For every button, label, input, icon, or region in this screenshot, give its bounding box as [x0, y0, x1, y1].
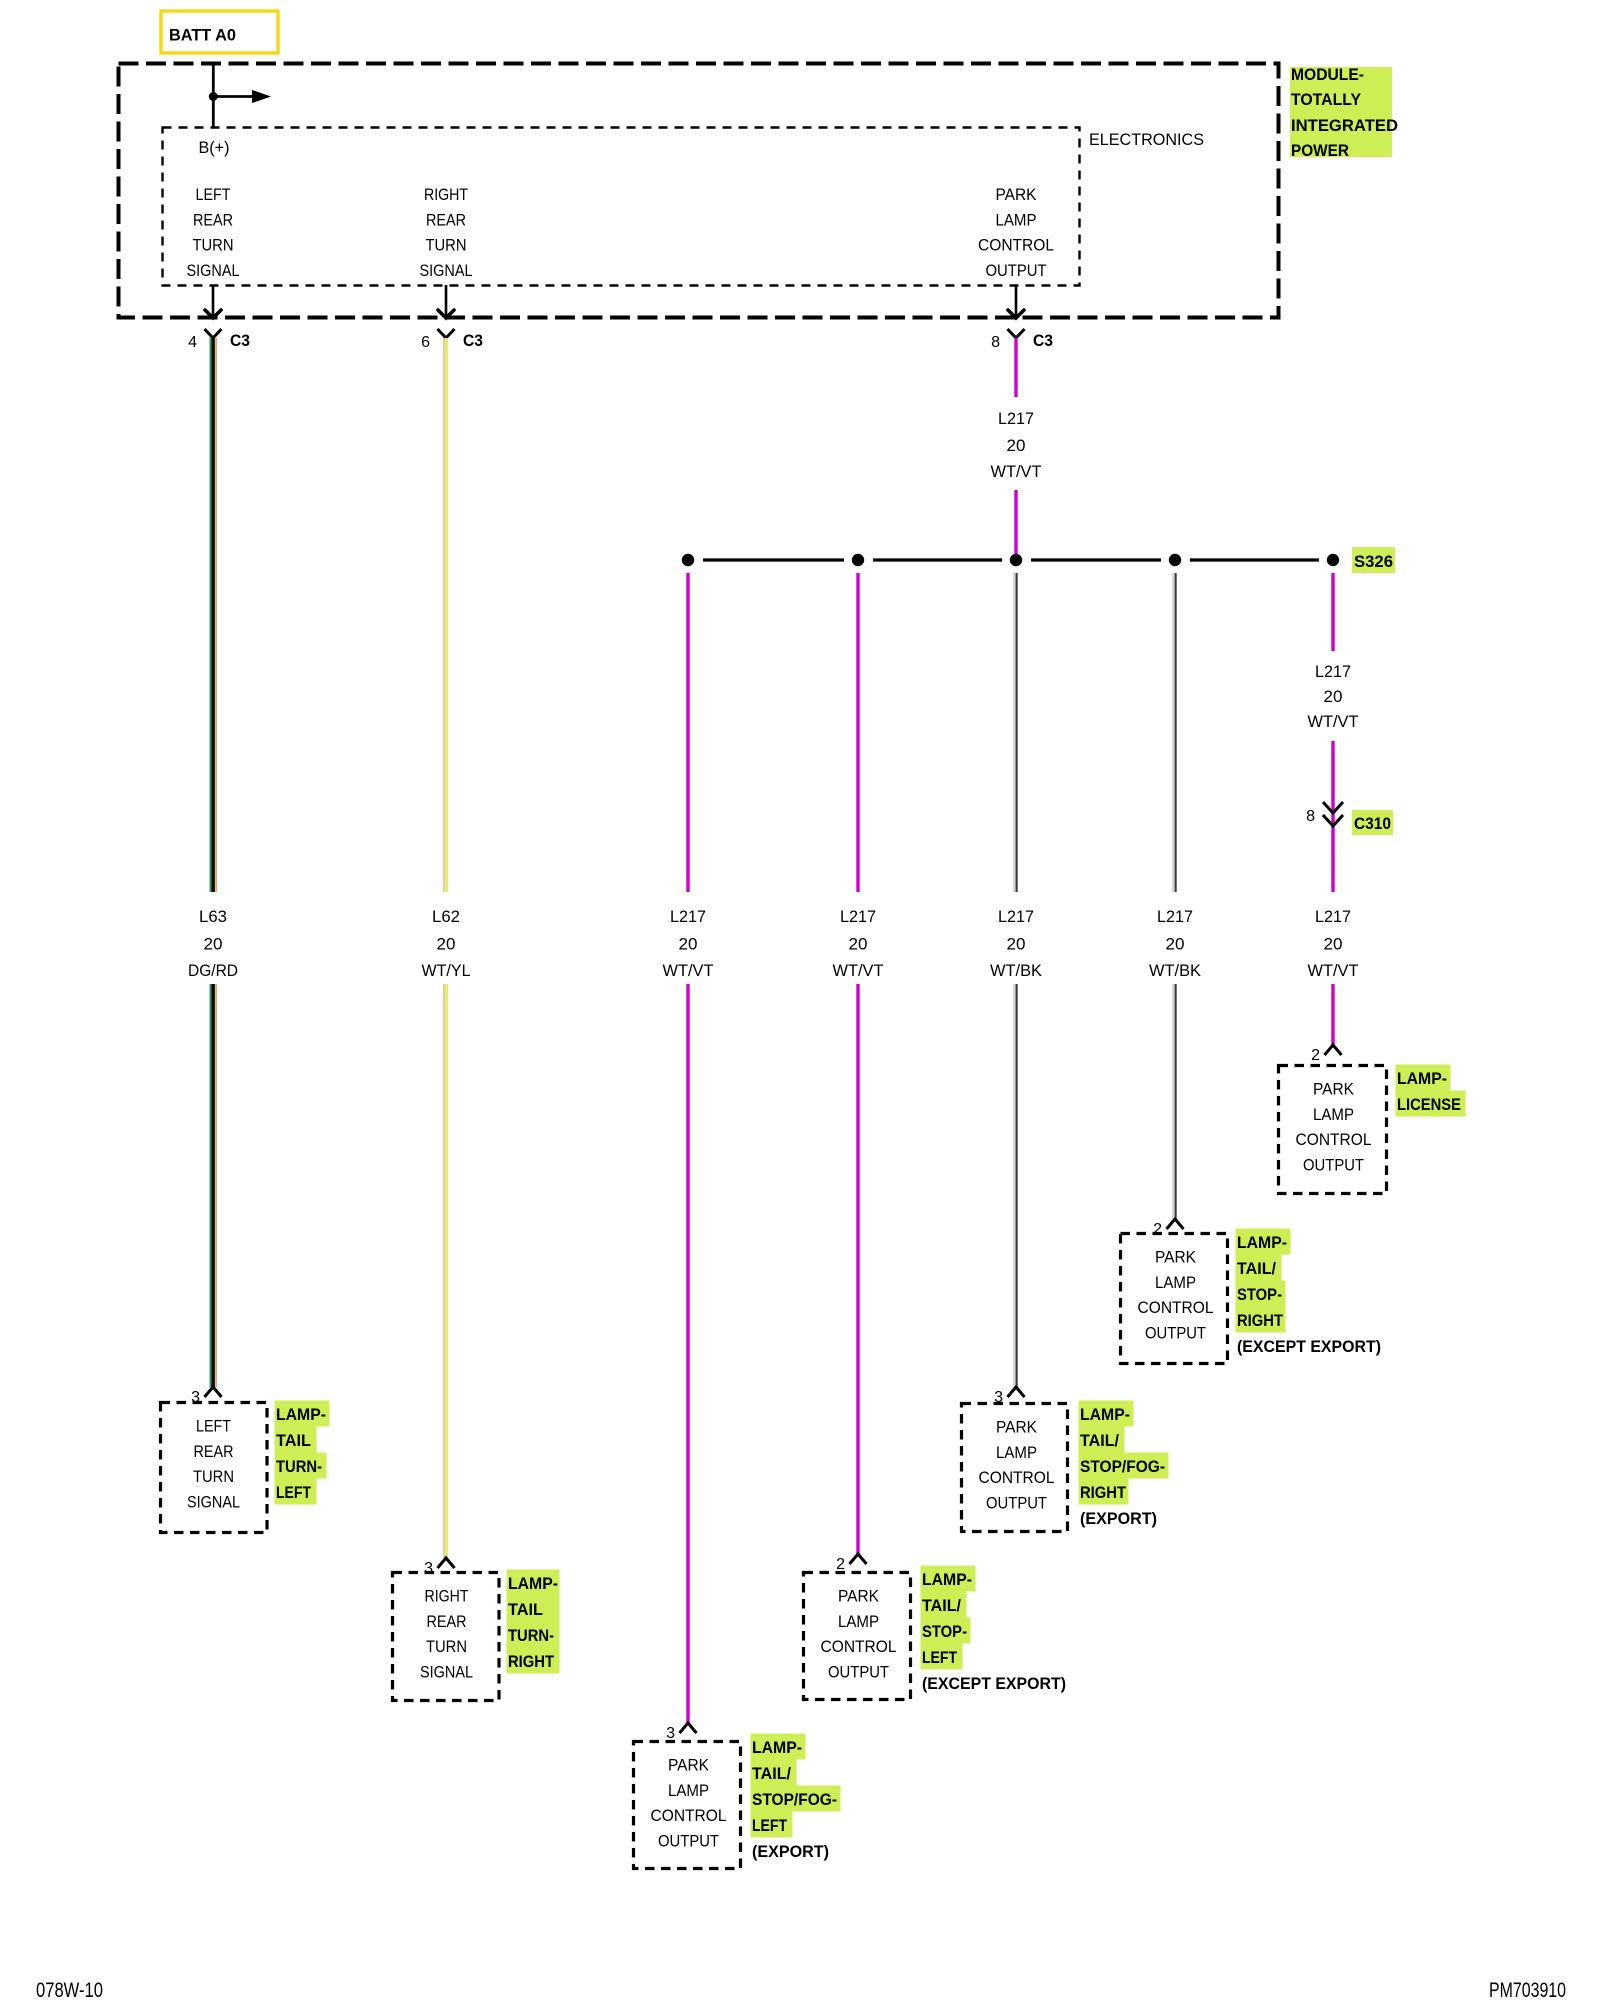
- svg-text:LAMP-: LAMP-: [1397, 1070, 1447, 1088]
- pin 3 chevron: [205, 1387, 222, 1397]
- svg-text:B(+): B(+): [199, 139, 230, 157]
- svg-text:LICENSE: LICENSE: [1397, 1096, 1461, 1114]
- svg-text:CONTROL: CONTROL: [1138, 1299, 1214, 1317]
- svg-text:TURN-: TURN-: [276, 1458, 322, 1476]
- svg-text:L63: L63: [199, 907, 227, 926]
- svg-text:L217: L217: [1157, 907, 1193, 926]
- svg-text:DG/RD: DG/RD: [188, 961, 238, 980]
- component dashed box: [1279, 1066, 1387, 1194]
- svg-text:20: 20: [679, 935, 698, 954]
- highlighted label line: [921, 1618, 971, 1644]
- pin 2 chevron: [1325, 1045, 1342, 1055]
- splice bus S326: [703, 558, 844, 561]
- pin 2 chevron: [1167, 1219, 1184, 1229]
- highlighted label line: [921, 1592, 967, 1618]
- highlighted label line: [751, 1760, 797, 1786]
- svg-text:LAMP: LAMP: [996, 1444, 1037, 1462]
- svg-text:STOP/FOG-: STOP/FOG-: [752, 1791, 837, 1809]
- electronics dashed box: [163, 128, 1080, 286]
- svg-text:MODULE-: MODULE-: [1291, 66, 1364, 84]
- svg-text:LAMP: LAMP: [1313, 1106, 1354, 1124]
- branch wire 3 WT/BK upper: [1013, 573, 1015, 892]
- svg-text:2: 2: [836, 1556, 845, 1573]
- svg-text:OUTPUT: OUTPUT: [1303, 1156, 1364, 1174]
- svg-text:RIGHT: RIGHT: [508, 1653, 554, 1671]
- component dashed box: [804, 1573, 911, 1700]
- svg-text:20: 20: [1007, 436, 1026, 455]
- output arrow left rear turn signal: [212, 285, 215, 318]
- svg-text:REAR: REAR: [194, 1443, 234, 1461]
- highlighted label line: [1079, 1479, 1129, 1505]
- branch wire 2 WT/VT lower: [856, 984, 859, 1554]
- svg-text:TURN-: TURN-: [508, 1627, 554, 1645]
- junction dot 2: [852, 554, 864, 566]
- component dashed box: [1121, 1234, 1228, 1364]
- svg-text:OUTPUT: OUTPUT: [828, 1663, 889, 1681]
- svg-text:LEFT: LEFT: [752, 1817, 787, 1835]
- svg-text:TAIL/: TAIL/: [1080, 1432, 1119, 1450]
- svg-text:LEFT: LEFT: [922, 1649, 957, 1667]
- pin 3 chevron: [680, 1723, 697, 1733]
- svg-text:ELECTRONICS: ELECTRONICS: [1089, 131, 1204, 149]
- pin 3 chevron: [438, 1558, 455, 1568]
- wire from BATT A0 into module: [212, 64, 215, 127]
- svg-text:TOTALLY: TOTALLY: [1291, 91, 1361, 109]
- svg-text:CONTROL: CONTROL: [1296, 1131, 1372, 1149]
- svg-text:OUTPUT: OUTPUT: [986, 262, 1047, 280]
- highlighted label line: [751, 1812, 793, 1838]
- junction dot 1: [682, 554, 694, 566]
- svg-text:INTEGRATED: INTEGRATED: [1291, 117, 1398, 135]
- junction dot 5: [1327, 554, 1339, 566]
- svg-text:REAR: REAR: [427, 1613, 467, 1631]
- highlighted label line: [1079, 1401, 1134, 1427]
- svg-text:20: 20: [1324, 935, 1343, 954]
- arrow to other circuits: [213, 95, 254, 98]
- svg-text:WT/VT: WT/VT: [833, 961, 884, 980]
- svg-text:OUTPUT: OUTPUT: [986, 1494, 1047, 1512]
- connector C3 pin 4: [205, 329, 222, 338]
- svg-text:6: 6: [421, 334, 430, 351]
- svg-text:LAMP: LAMP: [996, 211, 1037, 229]
- wire L62 20 WT/YL upper segment: [443, 338, 445, 892]
- svg-text:20: 20: [849, 935, 868, 954]
- svg-text:PARK: PARK: [1313, 1081, 1354, 1099]
- svg-text:(EXCEPT EXPORT): (EXCEPT EXPORT): [922, 1675, 1066, 1693]
- branch wire 5 WT/VT segment above label: [1331, 573, 1334, 651]
- svg-text:(EXPORT): (EXPORT): [1080, 1510, 1157, 1528]
- svg-text:TURN: TURN: [193, 237, 234, 255]
- svg-text:(EXPORT): (EXPORT): [752, 1843, 829, 1861]
- svg-text:LAMP: LAMP: [1155, 1274, 1196, 1292]
- component dashed box: [161, 1403, 268, 1533]
- svg-text:RIGHT: RIGHT: [1080, 1484, 1126, 1502]
- component dashed box: [962, 1404, 1068, 1532]
- svg-text:BATT A0: BATT A0: [169, 27, 236, 45]
- highlighted label line: [751, 1786, 841, 1812]
- svg-text:078W-10: 078W-10: [36, 1979, 103, 2000]
- svg-text:REAR: REAR: [426, 211, 466, 229]
- branch wire 4 WT/BK lower: [1172, 984, 1174, 1219]
- svg-text:WT/BK: WT/BK: [1149, 961, 1202, 980]
- svg-text:SIGNAL: SIGNAL: [420, 262, 473, 280]
- svg-text:RIGHT: RIGHT: [1237, 1312, 1283, 1330]
- output arrow park lamp control output: [1015, 285, 1018, 318]
- svg-text:L217: L217: [998, 409, 1034, 428]
- highlighted label line: [1079, 1453, 1169, 1479]
- svg-text:C3: C3: [463, 332, 483, 350]
- svg-text:L217: L217: [840, 907, 876, 926]
- branch wire 3 WT/BK lower: [1013, 984, 1015, 1387]
- highlighted label line: [507, 1570, 560, 1596]
- svg-text:WT/VT: WT/VT: [663, 961, 714, 980]
- svg-text:WT/VT: WT/VT: [1308, 961, 1359, 980]
- module boundary: TIPM dashed box: [119, 64, 1279, 318]
- module label MODULE-TOTALLY INTEGRATED POWER: [1290, 67, 1392, 157]
- branch wire 5 WT/VT lower: [1331, 984, 1334, 1045]
- pin 3 chevron: [1008, 1387, 1025, 1397]
- highlighted label line: [1236, 1229, 1291, 1255]
- svg-text:TAIL/: TAIL/: [1237, 1260, 1276, 1278]
- svg-text:PARK: PARK: [1155, 1249, 1196, 1267]
- highlighted label line: [1236, 1255, 1282, 1281]
- svg-text:WT/VT: WT/VT: [991, 462, 1042, 481]
- svg-text:LAMP: LAMP: [838, 1613, 879, 1631]
- wire L62 20 WT/YL lower segment: [443, 984, 445, 1558]
- svg-text:20: 20: [1324, 687, 1343, 706]
- svg-text:WT/YL: WT/YL: [422, 961, 471, 980]
- svg-text:TURN: TURN: [193, 1468, 234, 1486]
- wire L63 20 DG/RD lower segment: [209, 984, 211, 1387]
- svg-text:LAMP-: LAMP-: [508, 1575, 558, 1593]
- svg-text:POWER: POWER: [1291, 142, 1349, 160]
- svg-text:C3: C3: [230, 332, 250, 350]
- svg-text:LAMP-: LAMP-: [276, 1406, 326, 1424]
- svg-text:8: 8: [1306, 808, 1315, 825]
- highlighted label line: [921, 1566, 976, 1592]
- svg-text:20: 20: [437, 935, 456, 954]
- svg-text:TAIL: TAIL: [276, 1432, 311, 1450]
- svg-text:SIGNAL: SIGNAL: [420, 1663, 473, 1681]
- svg-text:CONTROL: CONTROL: [979, 1469, 1055, 1487]
- svg-text:RIGHT: RIGHT: [425, 1588, 469, 1606]
- svg-text:3: 3: [424, 1560, 433, 1577]
- svg-text:WT/BK: WT/BK: [990, 961, 1043, 980]
- svg-text:4: 4: [188, 334, 197, 351]
- svg-text:LAMP-: LAMP-: [922, 1571, 972, 1589]
- highlighted label line: [275, 1427, 317, 1453]
- svg-text:LEFT: LEFT: [196, 186, 231, 204]
- svg-text:PARK: PARK: [668, 1757, 709, 1775]
- junction dot 4: [1169, 554, 1181, 566]
- connector C3 pin 6: [438, 329, 455, 338]
- highlighted label line: [507, 1648, 560, 1674]
- svg-text:TURN: TURN: [426, 1638, 467, 1656]
- svg-text:PM703910: PM703910: [1489, 1979, 1566, 2000]
- highlighted label line: [921, 1644, 963, 1670]
- svg-text:PARK: PARK: [996, 1419, 1037, 1437]
- highlighted label line: [507, 1596, 560, 1622]
- svg-text:S326: S326: [1354, 553, 1393, 571]
- highlighted label line: [275, 1401, 330, 1427]
- svg-text:20: 20: [1166, 935, 1185, 954]
- svg-text:CONTROL: CONTROL: [821, 1638, 897, 1656]
- svg-text:CONTROL: CONTROL: [651, 1807, 727, 1825]
- svg-text:RIGHT: RIGHT: [424, 186, 468, 204]
- svg-text:TAIL/: TAIL/: [752, 1765, 791, 1783]
- highlighted label line: [751, 1734, 806, 1760]
- svg-text:PARK: PARK: [996, 186, 1037, 204]
- highlighted label line: [507, 1622, 560, 1648]
- svg-text:TAIL: TAIL: [508, 1601, 543, 1619]
- svg-text:PARK: PARK: [838, 1588, 879, 1606]
- highlighted label line: [1236, 1281, 1286, 1307]
- svg-text:LAMP: LAMP: [668, 1782, 709, 1800]
- junction dot 3: [1010, 554, 1022, 566]
- connector C310 pin 8: [1323, 802, 1343, 813]
- svg-text:LEFT: LEFT: [276, 1484, 311, 1502]
- svg-text:REAR: REAR: [193, 211, 233, 229]
- svg-text:20: 20: [204, 935, 223, 954]
- svg-text:LAMP-: LAMP-: [752, 1739, 802, 1757]
- branch wire 5 WT/VT segment through C310: [1331, 741, 1334, 892]
- svg-text:20: 20: [1007, 935, 1026, 954]
- highlighted label line: [275, 1453, 327, 1479]
- svg-text:STOP-: STOP-: [1237, 1286, 1282, 1304]
- svg-text:L217: L217: [998, 907, 1034, 926]
- svg-text:2: 2: [1311, 1047, 1320, 1064]
- svg-text:TURN: TURN: [426, 237, 467, 255]
- junction node on battery feed: [209, 92, 218, 101]
- svg-text:C3: C3: [1033, 332, 1053, 350]
- battery feed box BATT A0: [161, 11, 278, 53]
- svg-text:3: 3: [666, 1725, 675, 1742]
- pin 2 chevron: [850, 1554, 867, 1564]
- wire L63 20 DG/RD upper segment: [209, 338, 211, 892]
- highlighted label line: [1236, 1307, 1286, 1333]
- branch wire 1 WT/VT lower: [686, 984, 689, 1723]
- svg-text:8: 8: [991, 334, 1000, 351]
- svg-text:L217: L217: [1315, 907, 1351, 926]
- svg-text:CONTROL: CONTROL: [978, 237, 1054, 255]
- highlighted label line: [1396, 1065, 1451, 1091]
- svg-text:OUTPUT: OUTPUT: [658, 1832, 719, 1850]
- svg-text:SIGNAL: SIGNAL: [187, 1493, 240, 1511]
- wire L217 20 WT/VT from C3 pin 8: [1014, 338, 1017, 397]
- svg-text:L217: L217: [670, 907, 706, 926]
- svg-text:(EXCEPT EXPORT): (EXCEPT EXPORT): [1237, 1338, 1381, 1356]
- svg-text:TAIL/: TAIL/: [922, 1597, 961, 1615]
- svg-text:SIGNAL: SIGNAL: [187, 262, 240, 280]
- component dashed box: [634, 1742, 741, 1869]
- highlighted label line: [1079, 1427, 1125, 1453]
- svg-text:STOP/FOG-: STOP/FOG-: [1080, 1458, 1165, 1476]
- svg-text:L62: L62: [432, 907, 460, 926]
- svg-text:C310: C310: [1354, 815, 1391, 833]
- output arrow right rear turn signal: [445, 285, 448, 318]
- branch wire 4 WT/BK upper: [1172, 573, 1174, 892]
- svg-text:STOP-: STOP-: [922, 1623, 967, 1641]
- highlighted label line: [275, 1479, 317, 1505]
- svg-text:OUTPUT: OUTPUT: [1145, 1324, 1206, 1342]
- svg-text:LAMP-: LAMP-: [1237, 1234, 1287, 1252]
- splice label S326: [1352, 547, 1395, 573]
- component dashed box: [393, 1573, 500, 1701]
- svg-text:LEFT: LEFT: [196, 1418, 231, 1436]
- svg-text:L217: L217: [1315, 662, 1351, 681]
- svg-text:2: 2: [1153, 1221, 1162, 1238]
- wire into splice: [1014, 490, 1017, 556]
- svg-text:LAMP-: LAMP-: [1080, 1406, 1130, 1424]
- branch wire 2 WT/VT upper: [856, 573, 859, 892]
- connector C3 pin 8: [1008, 329, 1025, 338]
- svg-text:WT/VT: WT/VT: [1308, 712, 1359, 731]
- branch wire 1 WT/VT upper: [686, 573, 689, 892]
- highlighted label line: [1396, 1091, 1466, 1117]
